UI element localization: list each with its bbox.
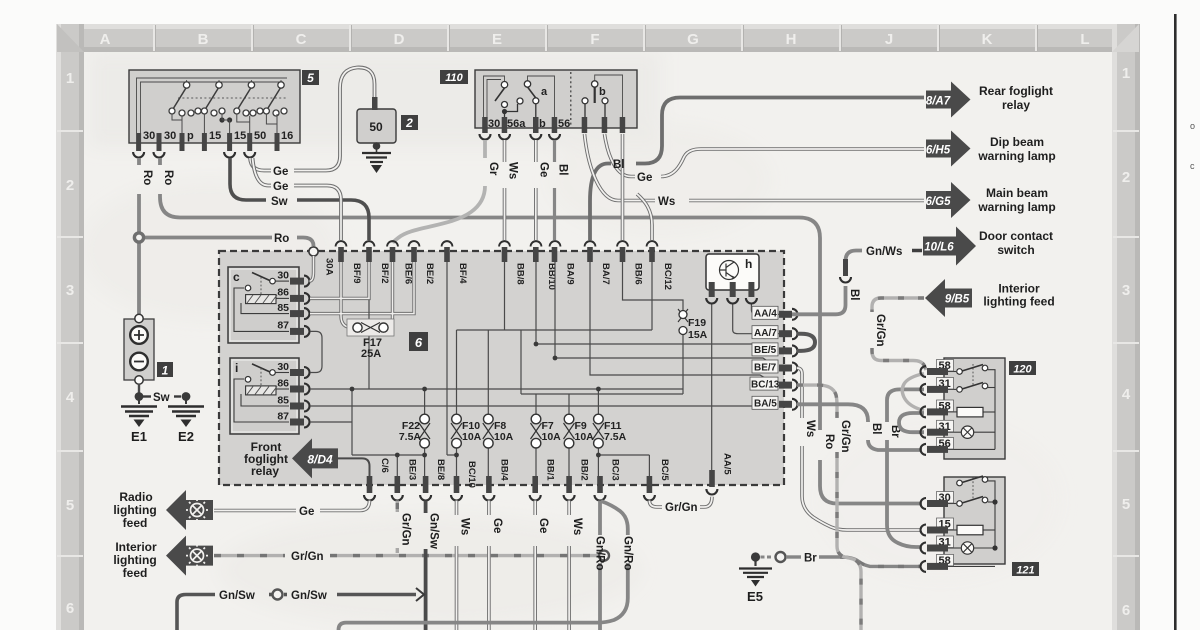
svg-text:BC/10: BC/10 <box>466 461 477 488</box>
svg-text:Ge: Ge <box>637 172 652 184</box>
svg-text:Ge: Ge <box>273 166 288 178</box>
svg-text:2: 2 <box>66 177 74 194</box>
svg-text:BE/5: BE/5 <box>754 345 777 356</box>
svg-text:Gn/Sw: Gn/Sw <box>291 590 327 602</box>
svg-text:10A: 10A <box>542 431 562 443</box>
svg-text:i: i <box>235 361 238 375</box>
svg-text:BC/5: BC/5 <box>659 459 670 481</box>
svg-text:C: C <box>296 31 307 48</box>
svg-text:25A: 25A <box>361 348 381 360</box>
svg-text:o: o <box>1190 121 1195 131</box>
svg-text:Gr/Gn: Gr/Gn <box>665 502 698 514</box>
svg-text:K: K <box>982 31 993 48</box>
svg-text:85: 85 <box>277 395 289 407</box>
svg-text:50: 50 <box>254 130 266 142</box>
svg-text:BE/2: BE/2 <box>424 263 435 284</box>
svg-text:E1: E1 <box>131 429 147 444</box>
svg-text:10A: 10A <box>462 431 482 443</box>
svg-text:H: H <box>786 31 797 48</box>
svg-text:BE/8: BE/8 <box>435 459 446 480</box>
svg-text:120: 120 <box>1013 364 1032 376</box>
svg-text:5: 5 <box>307 71 314 85</box>
svg-text:Main beam: Main beam <box>986 186 1048 200</box>
svg-text:BB/2: BB/2 <box>579 459 590 481</box>
svg-text:Ro: Ro <box>823 434 835 449</box>
svg-text:h: h <box>745 257 752 271</box>
svg-text:1: 1 <box>66 70 74 87</box>
svg-text:E5: E5 <box>747 589 763 604</box>
svg-text:Br: Br <box>804 553 817 565</box>
svg-text:Radio: Radio <box>119 490 152 504</box>
svg-text:Ws: Ws <box>459 518 471 535</box>
svg-text:lighting feed: lighting feed <box>983 295 1054 309</box>
svg-text:2: 2 <box>405 116 413 130</box>
svg-text:Ge: Ge <box>537 518 549 533</box>
svg-text:16: 16 <box>281 130 293 142</box>
svg-text:BA/9: BA/9 <box>565 263 576 285</box>
svg-text:c: c <box>233 270 240 284</box>
svg-text:lighting: lighting <box>113 503 156 517</box>
svg-text:Gn/Sw: Gn/Sw <box>428 513 440 549</box>
svg-text:8/A7: 8/A7 <box>926 96 951 108</box>
svg-text:E2: E2 <box>178 429 194 444</box>
svg-text:Ws: Ws <box>571 518 583 535</box>
svg-text:BE/7: BE/7 <box>754 362 777 373</box>
svg-text:BF/9: BF/9 <box>351 263 362 284</box>
svg-text:BF/2: BF/2 <box>379 263 390 284</box>
svg-text:Interior: Interior <box>115 540 157 554</box>
svg-text:BB/6: BB/6 <box>633 263 644 285</box>
svg-text:AA/7: AA/7 <box>754 328 777 339</box>
svg-text:BB/4: BB/4 <box>499 459 510 481</box>
svg-text:BE/6: BE/6 <box>403 263 414 284</box>
svg-text:G: G <box>687 31 699 48</box>
svg-text:BC/13: BC/13 <box>751 379 780 390</box>
svg-text:a: a <box>541 86 548 98</box>
svg-text:Bl: Bl <box>848 289 860 301</box>
svg-text:Ge: Ge <box>491 518 503 533</box>
svg-text:5: 5 <box>1122 496 1130 513</box>
svg-text:relay: relay <box>1002 98 1030 112</box>
svg-text:feed: feed <box>123 566 148 580</box>
svg-text:Gn/Ro: Gn/Ro <box>621 536 633 571</box>
svg-text:Gr: Gr <box>487 162 499 176</box>
svg-text:BB/1: BB/1 <box>545 459 556 481</box>
svg-text:50: 50 <box>369 120 383 134</box>
svg-text:warning lamp: warning lamp <box>977 200 1055 214</box>
svg-text:Gr/Gn: Gr/Gn <box>291 551 324 563</box>
svg-text:BA/5: BA/5 <box>754 399 777 410</box>
svg-text:Gr/Gn: Gr/Gn <box>839 420 851 453</box>
svg-text:85: 85 <box>277 302 289 314</box>
svg-text:switch: switch <box>997 243 1034 257</box>
svg-text:A: A <box>100 31 111 48</box>
svg-text:8/D4: 8/D4 <box>307 453 333 467</box>
svg-text:Gn/Ro: Gn/Ro <box>594 536 606 571</box>
svg-text:56a: 56a <box>507 118 526 130</box>
svg-text:86: 86 <box>277 378 289 390</box>
svg-text:feed: feed <box>123 516 148 530</box>
svg-text:F: F <box>590 31 599 48</box>
svg-text:30: 30 <box>164 130 176 142</box>
svg-text:Gr/Gn: Gr/Gn <box>399 513 411 546</box>
svg-text:Bl: Bl <box>870 423 882 435</box>
svg-text:3: 3 <box>66 282 74 299</box>
svg-text:4: 4 <box>1122 386 1131 403</box>
svg-text:Gr/Gn: Gr/Gn <box>874 314 886 347</box>
svg-text:BC/3: BC/3 <box>610 459 621 481</box>
svg-text:110: 110 <box>445 72 463 84</box>
svg-text:BF/4: BF/4 <box>457 263 468 284</box>
svg-text:10A: 10A <box>575 431 595 443</box>
svg-text:warning lamp: warning lamp <box>977 149 1055 163</box>
svg-text:Bl: Bl <box>613 159 625 171</box>
svg-text:b: b <box>599 86 606 98</box>
svg-text:15: 15 <box>234 130 246 142</box>
svg-text:relay: relay <box>251 464 279 478</box>
svg-text:6: 6 <box>66 600 74 617</box>
svg-text:AA/4: AA/4 <box>754 309 777 320</box>
svg-text:lighting: lighting <box>113 553 156 567</box>
svg-text:7.5A: 7.5A <box>604 431 627 443</box>
svg-text:Ge: Ge <box>299 506 314 518</box>
svg-text:D: D <box>394 31 405 48</box>
svg-text:10A: 10A <box>494 431 514 443</box>
svg-text:F19: F19 <box>688 317 706 329</box>
svg-text:6: 6 <box>415 335 423 350</box>
svg-text:4: 4 <box>66 389 75 406</box>
svg-text:BC/12: BC/12 <box>662 263 673 290</box>
svg-text:30: 30 <box>277 270 289 282</box>
svg-text:Door contact: Door contact <box>979 229 1053 243</box>
svg-text:1: 1 <box>1122 65 1130 82</box>
svg-text:Ws: Ws <box>804 420 816 437</box>
svg-text:3: 3 <box>1122 282 1130 299</box>
svg-text:B: B <box>198 31 209 48</box>
svg-text:5: 5 <box>66 497 74 514</box>
svg-text:56: 56 <box>558 118 570 130</box>
svg-text:Bl: Bl <box>557 164 569 176</box>
svg-text:b: b <box>539 118 546 130</box>
svg-text:6/G5: 6/G5 <box>926 196 952 208</box>
svg-text:Gn/Sw: Gn/Sw <box>219 590 255 602</box>
svg-text:C/6: C/6 <box>379 458 390 473</box>
svg-text:AA/5: AA/5 <box>722 453 733 475</box>
svg-text:Ws: Ws <box>507 162 519 179</box>
svg-text:15A: 15A <box>688 329 708 341</box>
svg-text:86: 86 <box>277 287 289 299</box>
svg-text:Ro: Ro <box>162 170 174 185</box>
svg-text:6: 6 <box>1122 602 1130 619</box>
svg-text:30A: 30A <box>324 258 335 276</box>
svg-text:1: 1 <box>162 364 169 378</box>
svg-text:2: 2 <box>1122 169 1130 186</box>
svg-text:30: 30 <box>143 130 155 142</box>
svg-text:9/B5: 9/B5 <box>945 294 970 306</box>
svg-text:E: E <box>492 31 502 48</box>
svg-text:30: 30 <box>488 118 500 130</box>
svg-text:6/H5: 6/H5 <box>926 145 951 157</box>
svg-text:10/L6: 10/L6 <box>924 242 954 254</box>
svg-text:Gn/Ws: Gn/Ws <box>866 246 902 258</box>
svg-text:BB/8: BB/8 <box>515 263 526 285</box>
svg-text:7.5A: 7.5A <box>399 431 422 443</box>
svg-text:Ws: Ws <box>658 196 675 208</box>
svg-text:Ro: Ro <box>274 233 289 245</box>
svg-text:L: L <box>1080 31 1089 48</box>
svg-text:30: 30 <box>277 361 289 373</box>
svg-text:Rear foglight: Rear foglight <box>979 84 1053 98</box>
svg-text:Ge: Ge <box>538 162 550 177</box>
svg-text:Sw: Sw <box>153 392 170 404</box>
svg-text:BE/3: BE/3 <box>407 459 418 480</box>
svg-text:c: c <box>1190 161 1195 171</box>
svg-text:87: 87 <box>277 320 289 332</box>
svg-text:p: p <box>187 130 194 142</box>
svg-text:Ro: Ro <box>141 170 153 185</box>
svg-text:87: 87 <box>277 411 289 423</box>
svg-text:15: 15 <box>209 130 221 142</box>
svg-text:Dip beam: Dip beam <box>990 135 1044 149</box>
svg-text:121: 121 <box>1016 565 1034 577</box>
svg-text:Interior: Interior <box>998 282 1040 296</box>
svg-text:Ge: Ge <box>273 181 288 193</box>
svg-text:Sw: Sw <box>271 196 288 208</box>
svg-text:BA/7: BA/7 <box>600 263 611 285</box>
svg-text:J: J <box>885 31 893 48</box>
